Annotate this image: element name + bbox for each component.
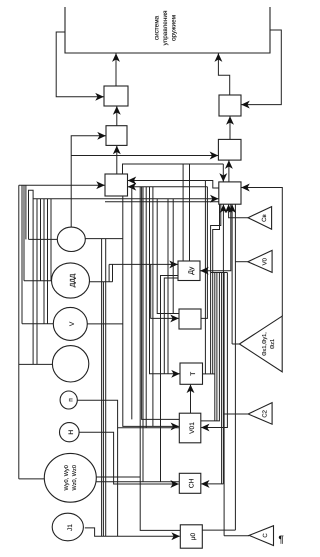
staircase descender to circle1 [25, 185, 27, 239]
wire box left output to B1 [56, 32, 103, 97]
label W circle [64, 465, 78, 490]
block R3 [219, 182, 241, 204]
block B3 [105, 174, 128, 196]
wire H circle to CH arrow [79, 432, 179, 484]
svg-text:п: п [67, 398, 74, 402]
wire bus164 tap to Dy top b [189, 164, 191, 261]
wire hang 168 [167, 199, 169, 374]
wire R3 right arrow from theta base [241, 188, 282, 317]
lineB hang 39.3 [40, 199, 42, 281]
comb line 3 [214, 273, 216, 421]
wire V01 to T [190, 385, 192, 414]
wire into CH right [201, 483, 223, 485]
block R2 [218, 139, 241, 160]
svg-text:V0: V0 [261, 257, 268, 265]
wire R2 to R1 [229, 116, 231, 139]
wire W left [19, 478, 45, 480]
wire M2 output riser [201, 187, 207, 319]
wire tap 103.4 down [102, 282, 104, 536]
wire Dy left stub a [161, 276, 179, 482]
svg-text:Св: Св [261, 214, 268, 222]
circle H [60, 423, 80, 442]
svg-text:Н: Н [68, 430, 75, 435]
wire box right output to R1 [241, 30, 281, 105]
wire theta riser to R3 bottom arrow [231, 205, 233, 344]
circle V [53, 307, 87, 340]
svg-text:Ду: Ду [188, 266, 195, 275]
label theta triangle [262, 332, 276, 356]
svg-text:¶: ¶ [279, 535, 284, 546]
staircase descender to DDD [23, 185, 25, 281]
block T [180, 363, 203, 384]
wire B3 left arrow line A [19, 184, 105, 186]
wire bus164 tap down into R3 top [222, 164, 224, 182]
wire J1 to mu0 arrow [85, 528, 180, 536]
wire B3 bottom long vertical to V01 left arrow [123, 196, 179, 426]
comb line 2 with jog from R3 bottom [213, 205, 220, 374]
comb line 5 / V01 out riser [201, 273, 220, 421]
wire R3 zone up into R2 bottom [228, 161, 230, 183]
svg-text:Θх1,Θу1,: Θх1,Θу1, [262, 332, 268, 356]
svg-text:оружием: оружием [171, 15, 178, 41]
wire V0 stub [235, 261, 247, 263]
weapon control system box [65, 7, 270, 53]
circle 1 [57, 227, 85, 251]
wire riser 205.4 down to T out [204, 181, 206, 374]
wire long line B circle4 to R3 left arrow [33, 199, 218, 365]
svg-text:СН: СН [189, 478, 196, 488]
svg-text:μ0: μ0 [190, 532, 197, 540]
wire y180.5 branch step into R3 left [205, 181, 218, 189]
block M2 [179, 309, 201, 329]
lineB hang 51 [50, 199, 52, 281]
circle W [44, 453, 96, 502]
wire hang 146.2 [145, 187, 147, 428]
lineB hang 45.5 [47, 199, 49, 324]
svg-text:Θz1: Θz1 [270, 339, 276, 349]
staircase descender to W (long left) [18, 185, 20, 479]
circle n [60, 391, 77, 409]
wire Dy left stub b [164, 278, 178, 374]
svg-text:Wy0, Wy0: Wy0, Wy0 [64, 465, 70, 490]
wire theta stub [232, 343, 239, 345]
block Dy [178, 261, 200, 281]
wire V01 upper-left entry [142, 187, 180, 420]
wire B2 to B1 [116, 106, 118, 125]
wire T left arrow [150, 187, 180, 374]
wire circle1 riser to B2 [71, 136, 105, 228]
wire B3 to B2 [116, 146, 118, 174]
circle J1 [52, 513, 83, 541]
wire W upper right [95, 476, 140, 478]
wire R1 to box zigzag (arrow up) [218, 54, 229, 96]
svg-text:ДДД: ДДД [69, 273, 76, 287]
block B1 [104, 86, 128, 106]
comb line 8 into V01 right arrow [201, 273, 227, 428]
wire hang 143 to CH wire [142, 187, 144, 482]
wire V circle right [87, 323, 123, 325]
wire n circle to V01 and down [77, 400, 117, 536]
wire bus164 tap to Dy top a [182, 164, 184, 261]
wire tap 105.7 down [105, 239, 107, 537]
wire DDD left [24, 280, 52, 282]
circle 4 [52, 346, 88, 382]
wire C stub [224, 535, 249, 537]
block CH [179, 473, 201, 493]
svg-text:С: С [262, 533, 269, 538]
circle DDD [52, 263, 90, 298]
wire y180.5 into B3 right [128, 180, 205, 182]
wire M2 left arrow from Dy wire [151, 264, 179, 318]
wire hang 131.8 [131, 187, 133, 420]
staircase line C to R3 lower-left [29, 190, 34, 239]
wire y186.7 into B3 right [128, 186, 207, 188]
comb line 1 with jog from R3 bottom [211, 205, 221, 374]
wire circle1 right [85, 238, 123, 240]
triangle theta [239, 316, 282, 372]
wire B1 to box (arrow up) [115, 54, 117, 87]
triangle V0 [248, 250, 272, 272]
svg-text:Wz0, Wz0: Wz0, Wz0 [72, 465, 78, 490]
comb line 4 [216, 273, 218, 421]
wire DDD right [90, 281, 113, 283]
svg-text:V: V [69, 321, 76, 326]
wire R3 bottom down to Dy right arrow [200, 204, 230, 271]
block B2 [106, 126, 127, 146]
wire hang 173.2 [172, 199, 174, 314]
staircase descender to V [21, 185, 23, 324]
wire W lower to CH [95, 481, 179, 483]
circle1 left wire [29, 238, 58, 240]
label system control box [154, 10, 178, 45]
wire mu0 out [202, 529, 235, 531]
lineB hang 36.2 [36, 199, 38, 365]
lineB hang 42.4 [43, 199, 45, 324]
wire C2 stub [223, 413, 248, 415]
wire M2 top-left entry [157, 199, 179, 314]
wire DDD riser pair to Dy left arrow [112, 264, 114, 281]
comb line 7 [223, 273, 225, 536]
wire hang 152.9 [152, 187, 154, 427]
wire hang 140.2 to mu0 upper [140, 187, 180, 531]
svg-text:J1: J1 [67, 524, 74, 531]
triangle Cb [248, 207, 272, 230]
block V01 [179, 413, 201, 443]
triangle C [249, 526, 273, 546]
svg-text:Т: Т [190, 372, 197, 376]
lower wire under B3 to R3 [105, 201, 219, 203]
svg-text:система: система [154, 15, 161, 40]
wire R3 bottom riser [222, 205, 224, 484]
svg-text:V01: V01 [189, 422, 196, 434]
wire long x235.4 [234, 204, 236, 530]
block R1 [219, 95, 241, 116]
svg-text:С2: С2 [261, 409, 268, 417]
wire Cb to R3 bottom [229, 205, 248, 218]
comb line 6 [221, 273, 223, 484]
wire B3 top tap to bus164 [123, 164, 224, 174]
block mu0 [180, 525, 202, 548]
wire V left [22, 323, 53, 325]
wire T output [203, 373, 215, 375]
wire tap to R2 left [71, 155, 218, 157]
wire tap 101.6 down [101, 239, 103, 537]
svg-text:управления: управления [162, 10, 169, 45]
triangle C2 [248, 403, 272, 425]
comb tie bus [211, 272, 228, 274]
wire circle4 left [19, 363, 53, 365]
